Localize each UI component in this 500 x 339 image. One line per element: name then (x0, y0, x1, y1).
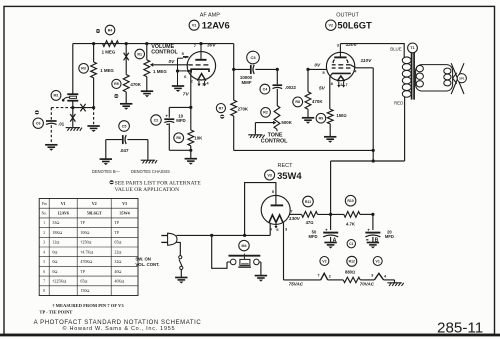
V1 cathode (191, 69, 209, 73)
pin 4 arrow (203, 81, 206, 87)
svg-text:R4: R4 (108, 28, 113, 32)
svg-text:TP: TP (80, 269, 85, 274)
V1 grid (189, 64, 208, 66)
wire screen to 110V (350, 65, 373, 68)
svg-text:8: 8 (331, 81, 334, 86)
svg-text:1: 1 (43, 221, 45, 225)
pin 7 label (290, 208, 293, 213)
svg-text:8: 8 (43, 289, 45, 293)
svg-text:MFD: MFD (308, 234, 317, 239)
value 470K (130, 82, 141, 87)
wire (72, 102, 74, 108)
svg-text:6: 6 (43, 270, 45, 274)
label DENOTES B- (92, 169, 121, 174)
svg-text:4: 4 (270, 227, 273, 232)
ground chassis (387, 283, 403, 286)
wire red lead (404, 97, 406, 161)
svg-text:R11: R11 (305, 200, 311, 204)
svg-text:10K: 10K (194, 136, 203, 141)
svg-text:50L6GT: 50L6GT (337, 19, 372, 30)
wire (147, 140, 149, 160)
transformer T1 core (412, 53, 415, 100)
svg-text:R1: R1 (137, 52, 142, 56)
svg-text:Pin: Pin (42, 202, 47, 206)
wire (72, 44, 74, 94)
svg-text:270K: 270K (238, 107, 249, 112)
speaker SP1 voice coil (444, 68, 451, 86)
voltage 75VAC (289, 282, 304, 287)
svg-text:4: 4 (206, 81, 209, 86)
svg-text:35W4: 35W4 (277, 170, 302, 181)
value 20 MFD (385, 230, 394, 240)
wire (72, 108, 74, 127)
label RED (394, 100, 403, 105)
svg-text:2: 2 (43, 231, 45, 235)
ground B- (45, 145, 57, 151)
svg-text:32Ω: 32Ω (114, 259, 121, 264)
wire (329, 124, 331, 136)
speaker SP1 magnet (451, 63, 464, 94)
svg-text:5V: 5V (319, 85, 326, 91)
footer copyright (63, 325, 176, 332)
value 500K (281, 120, 292, 125)
wire (146, 77, 148, 91)
svg-text:40KΩ: 40KΩ (114, 279, 124, 284)
svg-text:3: 3 (285, 227, 288, 232)
wire (307, 69, 309, 91)
ground B- (255, 276, 267, 282)
ground B- legend (100, 159, 112, 165)
see-parts mark (114, 94, 118, 98)
resistor R10 (344, 195, 360, 217)
svg-text:470K: 470K (312, 99, 323, 104)
capacitor C6 (33, 118, 57, 128)
voltage 120V (346, 42, 358, 48)
V1 heater (197, 74, 205, 81)
voltage 30V (207, 43, 216, 49)
pin 2 label (340, 82, 343, 87)
wire (93, 78, 95, 108)
value 10000 MMF (240, 75, 253, 85)
voltage 5V (319, 85, 326, 91)
svg-text:30V: 30V (207, 43, 216, 49)
wire (169, 106, 191, 108)
V1 diode plates bracket (178, 57, 193, 86)
wire (146, 44, 148, 60)
svg-text:4: 4 (384, 273, 387, 278)
svg-text:C5: C5 (122, 124, 127, 128)
heater designator V1 (373, 257, 382, 266)
see-parts mark (220, 115, 224, 119)
label TONE CONTROL (261, 132, 288, 144)
svg-text:.047: .047 (120, 148, 129, 153)
svg-text:4.7K: 4.7K (346, 221, 355, 226)
node junction (372, 159, 375, 162)
value 47 (306, 220, 314, 225)
value 1 MEG (153, 69, 167, 74)
svg-text:+: + (165, 114, 168, 119)
wire (340, 44, 404, 57)
svg-text:C4: C4 (263, 87, 268, 91)
svg-text:12AV6: 12AV6 (57, 211, 69, 216)
value 470K (312, 99, 323, 104)
wire plate to AC (245, 183, 276, 236)
pin 7 label (194, 43, 197, 48)
wiper arrow R1 (150, 63, 189, 67)
svg-text:†250Ω: †250Ω (80, 240, 91, 245)
wire (176, 242, 180, 255)
ground B- (175, 278, 187, 284)
svg-text:V2: V2 (92, 201, 97, 206)
wire (73, 107, 94, 109)
V2 beam plates (333, 60, 348, 63)
label VOLUME CONTROL (151, 44, 178, 56)
svg-text:R3: R3 (81, 67, 86, 71)
svg-text:R12: R12 (349, 260, 355, 264)
wire (233, 116, 235, 150)
note see parts list (110, 180, 202, 193)
svg-text:R5: R5 (114, 82, 119, 86)
node pickup junction (71, 106, 74, 109)
wire (73, 43, 234, 45)
voltage 0V (169, 59, 176, 65)
wire (329, 77, 331, 109)
resistor R8 (293, 92, 311, 110)
pin 4 label (270, 227, 273, 232)
tube designator V1 (189, 20, 199, 30)
wire line B (331, 160, 405, 162)
AC plug P1 (161, 233, 177, 245)
node junction V1 plate (199, 42, 202, 45)
svg-text:50L6GT: 50L6GT (87, 211, 102, 216)
alternate-value X mark (80, 104, 85, 112)
svg-text:V1: V1 (192, 24, 197, 28)
wire (234, 68, 250, 70)
wire dashed (50, 108, 52, 120)
tone control R2 (261, 106, 280, 130)
ground B- (302, 118, 314, 124)
tetrode V2 envelope (326, 52, 354, 80)
wire (276, 89, 278, 106)
voltage 0V (314, 62, 321, 68)
transformer T1 primary (402, 57, 411, 97)
node junction (371, 213, 374, 216)
capacitor C2 (151, 114, 175, 126)
speaker SP1 frame (416, 65, 453, 91)
wire AC line (176, 234, 270, 236)
svg-text:1 MEG: 1 MEG (100, 68, 114, 73)
node junction (176, 69, 179, 72)
see-parts mark (35, 110, 39, 114)
pin 5 label (322, 70, 325, 75)
wire (360, 279, 374, 281)
label DENOTES CHASSIS (131, 169, 170, 174)
pin 5 label (272, 189, 275, 194)
svg-text:A PHOTOFACT STANDARD NOTATI: A PHOTOFACT STANDARD NOTATION SCHEMATIC (34, 320, 202, 326)
svg-text:R9: R9 (319, 117, 324, 121)
resistor R9 (316, 109, 333, 124)
svg-text:0V: 0V (314, 62, 321, 68)
svg-text:35W4: 35W4 (119, 211, 129, 216)
ground B- (324, 137, 336, 143)
svg-text:R2: R2 (263, 111, 268, 115)
ground B- (87, 126, 99, 132)
svg-text:MFD: MFD (385, 234, 394, 239)
svg-text:4: 4 (354, 68, 357, 73)
svg-text:1 MEG: 1 MEG (153, 69, 167, 74)
V2 screen grid (332, 64, 351, 66)
resistor R7 (216, 100, 236, 116)
pin 3 arrow (197, 81, 200, 87)
motor M4 designator (239, 240, 249, 250)
pin 6 arrow (274, 222, 277, 228)
wire (307, 109, 309, 117)
label OUTPUT (336, 13, 359, 19)
voltage 70VAC (360, 282, 375, 287)
svg-text:C1: C1 (349, 242, 353, 246)
wire (127, 139, 147, 141)
voltage 110V (361, 58, 373, 64)
svg-text:12Ω: 12Ω (52, 240, 59, 245)
svg-text:R6: R6 (176, 136, 181, 140)
pin 4 label (206, 81, 209, 86)
svg-text:V1: V1 (61, 201, 66, 206)
pin 7 arrow (342, 81, 345, 87)
svg-text:M1: M1 (54, 94, 59, 98)
wire (233, 44, 235, 101)
svg-text:V1: V1 (376, 259, 380, 263)
wire (372, 68, 374, 161)
svg-text:110V: 110V (361, 58, 373, 64)
resistor R4 (103, 25, 119, 46)
node junction (232, 68, 235, 71)
node junction (306, 68, 309, 71)
svg-text:†4.7KΩ: †4.7KΩ (80, 249, 93, 254)
alternate-value X mark (70, 114, 75, 122)
pin 4 lead (269, 223, 271, 236)
svg-text:22Ω: 22Ω (114, 249, 121, 254)
node junction (243, 234, 246, 237)
V1 plate (195, 44, 206, 60)
node junction (329, 213, 332, 216)
wire (190, 73, 192, 107)
wire (276, 69, 278, 84)
ground chassis (66, 128, 82, 131)
ground chassis legend (141, 160, 157, 163)
wire stub (276, 129, 278, 131)
svg-text:.01: .01 (58, 121, 65, 126)
svg-text:C3: C3 (250, 55, 256, 60)
pin 6 label (184, 74, 187, 79)
svg-text:R8: R8 (295, 100, 300, 104)
pin 3 lead (283, 223, 285, 280)
svg-text:3: 3 (337, 42, 340, 47)
svg-text:0Ω: 0Ω (52, 259, 57, 264)
pin 7 label (317, 272, 320, 277)
footer title (34, 320, 202, 326)
svg-text:150Ω: 150Ω (80, 288, 89, 293)
sheet number 285-11 (437, 319, 483, 336)
svg-text:6: 6 (184, 74, 187, 79)
wire (394, 280, 396, 283)
svg-text:TP: TP (80, 220, 85, 225)
value .047 (120, 148, 129, 153)
wire (284, 279, 321, 281)
wire (212, 235, 227, 268)
wire (308, 68, 327, 70)
ground chassis (248, 135, 264, 138)
svg-text:† MEASURED FROM PIN 7 OF V3: † MEASURED FROM PIN 7 OF V3 (52, 303, 124, 308)
wire (328, 279, 344, 281)
resistor R12 (343, 256, 360, 282)
tube designator V3 (265, 170, 275, 180)
V2 cathode (330, 73, 351, 77)
svg-text:7: 7 (345, 82, 348, 87)
value .01 (58, 121, 65, 126)
value 1 MEG (100, 68, 114, 73)
svg-text:© Howard W. Sams & Co., Inc.: © Howard W. Sams & Co., Inc. 1955 (63, 325, 176, 332)
value 4.7K (346, 221, 355, 226)
ground B- 7V (172, 86, 184, 92)
svg-text:500K: 500K (281, 120, 292, 125)
pin 4 label (384, 273, 387, 278)
capacitor C3 (247, 51, 260, 74)
svg-text:40Ω: 40Ω (114, 269, 121, 274)
svg-text:100Ω: 100Ω (80, 230, 89, 235)
svg-text:47Ω: 47Ω (306, 220, 314, 225)
wire (168, 123, 170, 150)
svg-text:0Ω: 0Ω (52, 269, 57, 274)
pin 3 label (337, 42, 340, 47)
wire (180, 270, 182, 278)
svg-text:R7: R7 (219, 106, 224, 110)
svg-text:DENOTES CHASSIS: DENOTES CHASSIS (131, 169, 170, 174)
wire (384, 279, 395, 281)
tube type 50L6GT (337, 19, 372, 30)
voltage 7V (183, 91, 190, 97)
ground B- (141, 91, 153, 97)
volume control R1 (135, 49, 150, 76)
value 150 (336, 113, 346, 118)
svg-text:OUTPUT: OUTPUT (336, 13, 359, 19)
pickup M1 (51, 91, 78, 102)
value 10K (194, 136, 203, 141)
ground B- (324, 243, 336, 249)
svg-text:75VAC: 75VAC (289, 282, 304, 287)
node junction R3/top (92, 42, 95, 45)
pin 3 label (371, 272, 374, 277)
svg-text:BLUE: BLUE (390, 46, 402, 51)
svg-text:CONTROL: CONTROL (151, 50, 178, 56)
tube type 35W4 (277, 170, 302, 181)
table note measured (39, 303, 124, 314)
pin 8 label (331, 81, 334, 86)
V1 heater symbol (374, 273, 383, 280)
ground B- (367, 243, 379, 249)
svg-text:6: 6 (276, 227, 279, 232)
svg-text:0Ω: 0Ω (52, 249, 57, 254)
svg-text:V2: V2 (322, 259, 326, 263)
svg-text:3: 3 (43, 241, 45, 245)
svg-text:RECT: RECT (278, 163, 294, 169)
svg-text:MFD: MFD (176, 118, 186, 123)
pin 2 label (191, 79, 194, 84)
wire (330, 214, 332, 230)
voltage-resistance table (39, 199, 138, 296)
node junction (372, 149, 375, 152)
svg-text:470K: 470K (130, 82, 141, 87)
svg-text:R10: R10 (347, 199, 353, 203)
svg-text:3: 3 (371, 272, 374, 277)
svg-text:.0022: .0022 (285, 85, 297, 90)
V2 heater symbol (321, 273, 328, 280)
label BLUE (390, 46, 402, 51)
switch SW on R1 (179, 256, 183, 270)
svg-text:12AV6: 12AV6 (202, 19, 230, 30)
capacitor designator C1 (347, 240, 355, 248)
value 1 MEG (102, 50, 116, 55)
voltage 130V (289, 216, 301, 222)
svg-text:C2: C2 (154, 118, 159, 122)
triode V1 envelope (187, 52, 215, 80)
wire (260, 262, 262, 275)
V2 control grid (332, 67, 351, 69)
wire dashed (51, 107, 73, 109)
svg-text:130V: 130V (289, 216, 301, 222)
svg-text:TP - TIE POINT: TP - TIE POINT (39, 309, 72, 314)
svg-text:5: 5 (43, 260, 45, 264)
svg-text:33Ω: 33Ω (52, 220, 59, 225)
wire (190, 146, 192, 159)
svg-text:MMF: MMF (242, 80, 252, 85)
pin 2 label (329, 273, 332, 278)
node junction R1 top (145, 42, 148, 45)
wire (290, 213, 302, 215)
wire (360, 213, 373, 215)
node junction (189, 106, 192, 109)
pin 3 label (202, 81, 205, 86)
wire (372, 214, 374, 230)
node junction R4/R5 (125, 42, 128, 45)
node junction (276, 68, 279, 71)
V2 heater (337, 76, 344, 81)
svg-text:7: 7 (290, 208, 293, 213)
alternate-value X mark (124, 53, 129, 61)
pin 3 label (285, 227, 288, 232)
svg-text:RED: RED (394, 100, 403, 105)
pin 7 label (345, 82, 348, 87)
wire (168, 107, 170, 117)
wire (318, 213, 344, 215)
svg-text:7: 7 (43, 280, 45, 284)
svg-text:0V: 0V (169, 59, 176, 65)
value 50 MFD (308, 230, 317, 240)
heater designator V2 (320, 257, 329, 266)
svg-text:285-11: 285-11 (437, 319, 483, 336)
pin 5 label (182, 51, 185, 56)
resistor R5 (112, 75, 129, 93)
pin 2 arrow (337, 81, 340, 87)
svg-text:DENOTES B—: DENOTES B— (92, 169, 121, 174)
resistor R6 (174, 130, 194, 146)
V3 heater (269, 215, 283, 223)
svg-text:65Ω: 65Ω (114, 240, 121, 245)
svg-text:4: 4 (43, 250, 45, 254)
svg-text:65Ω: 65Ω (80, 279, 87, 284)
capacitor C1 section A (323, 228, 338, 244)
ground B- (185, 159, 197, 165)
wire (105, 140, 107, 159)
